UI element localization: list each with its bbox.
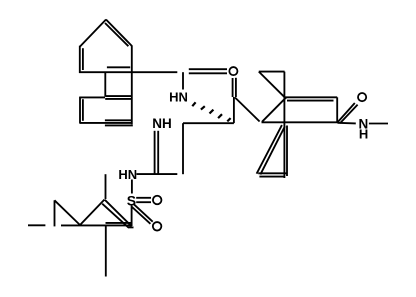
wire — [131, 46, 133, 125]
wire — [136, 197, 151, 199]
wire — [157, 131, 159, 174]
node O1 — [229, 67, 237, 75]
wire — [105, 200, 132, 227]
wire — [262, 99, 284, 122]
wire — [262, 121, 338, 123]
wire — [105, 174, 107, 199]
wire — [105, 225, 107, 276]
wire — [54, 200, 56, 226]
wire — [79, 97, 81, 124]
node O2 — [153, 196, 162, 205]
node O3 — [153, 222, 162, 231]
wire — [189, 72, 227, 74]
wire — [189, 68, 227, 70]
wire — [154, 131, 156, 174]
wire — [183, 122, 234, 124]
wire — [82, 99, 84, 121]
wire — [369, 123, 388, 125]
svg-text:HN: HN — [169, 90, 188, 105]
wire — [107, 66, 130, 68]
wire — [82, 48, 84, 70]
wire — [132, 207, 151, 224]
svg-text:H: H — [359, 127, 368, 142]
wire — [129, 226, 134, 228]
wire — [340, 105, 358, 124]
hash wedge — [192, 102, 230, 121]
wire — [131, 180, 133, 194]
wire — [137, 173, 178, 175]
wire — [80, 96, 105, 98]
wire — [79, 46, 81, 73]
svg-text:S: S — [127, 192, 136, 208]
wire — [104, 72, 106, 96]
wire — [102, 204, 129, 228]
wire — [336, 97, 338, 122]
wire — [260, 126, 285, 174]
wire — [287, 100, 334, 102]
wire — [79, 71, 177, 73]
wire — [259, 176, 284, 178]
wire — [182, 72, 184, 89]
wire — [105, 124, 133, 126]
wire — [28, 224, 45, 226]
wire — [259, 72, 286, 99]
wire — [136, 201, 151, 203]
wire — [80, 122, 131, 124]
wire — [80, 20, 106, 47]
wire — [105, 95, 132, 97]
wire — [134, 204, 153, 221]
svg-text:HN: HN — [118, 167, 137, 182]
wire — [80, 200, 105, 226]
node O4 — [358, 93, 366, 101]
wire — [55, 200, 81, 225]
wire — [285, 96, 337, 98]
wire — [105, 23, 128, 46]
wire — [338, 122, 356, 125]
wire — [235, 78, 237, 97]
wire — [258, 172, 286, 174]
svg-text:NH: NH — [152, 116, 172, 131]
wire — [233, 97, 235, 123]
wire — [257, 125, 282, 174]
wire — [286, 126, 288, 177]
wire — [105, 119, 131, 121]
wire — [106, 222, 132, 224]
wire — [283, 72, 285, 178]
wire — [61, 224, 131, 226]
wire — [106, 20, 132, 47]
wire — [232, 78, 234, 97]
wire — [235, 98, 260, 122]
wire — [182, 123, 184, 174]
wire — [338, 103, 355, 122]
wire — [259, 71, 285, 73]
wire — [105, 98, 132, 100]
wire — [131, 206, 133, 227]
